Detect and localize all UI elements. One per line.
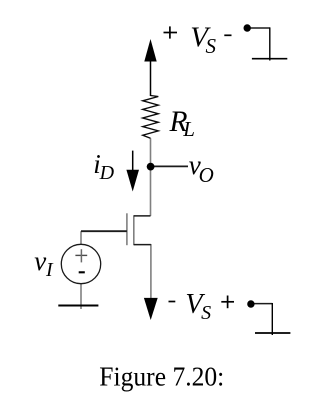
svg-text:v: v	[34, 246, 46, 276]
svg-text:S: S	[201, 302, 211, 324]
svg-text:Figure 7.20:: Figure 7.20:	[99, 361, 224, 392]
svg-text:S: S	[206, 34, 217, 58]
svg-text:D: D	[99, 162, 115, 184]
svg-text:O: O	[199, 163, 214, 187]
svg-text:I: I	[45, 259, 54, 281]
svg-text:L: L	[182, 117, 195, 141]
